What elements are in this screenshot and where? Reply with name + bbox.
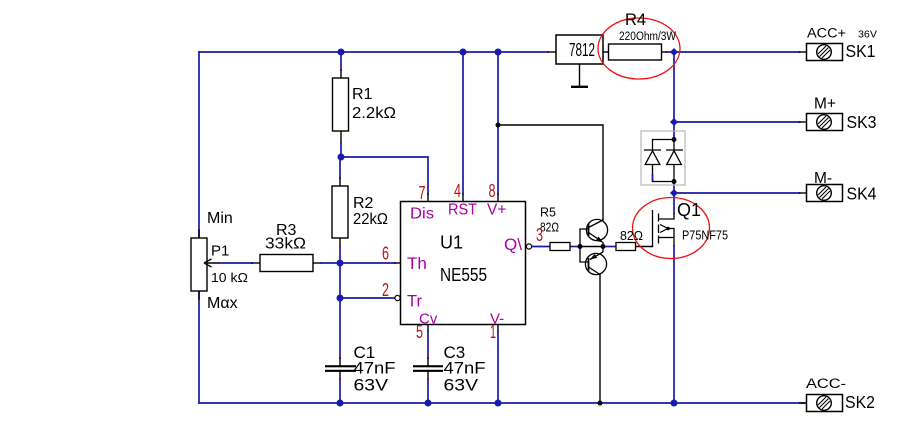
wire emitter node to R6 bbox=[603, 246, 616, 248]
wire R2 bottom lead bbox=[339, 238, 341, 246]
wire P1 bottom lead bbox=[198, 291, 200, 299]
svg-text:4: 4 bbox=[454, 181, 461, 201]
wire pin3 Q to R5 bbox=[532, 246, 550, 248]
wire node pin7 Dis bbox=[341, 157, 428, 194]
red ellipse around Q1 bbox=[633, 198, 710, 259]
resistor R2 bbox=[332, 186, 348, 238]
resistor R5 bbox=[550, 243, 570, 251]
node Tr bbox=[337, 295, 344, 302]
connector SK3 bbox=[807, 114, 843, 131]
node rail pin1 bbox=[495, 400, 502, 407]
wire node M- to SK4 bbox=[674, 192, 800, 194]
transistor Q2 top NPN bbox=[586, 219, 607, 246]
resistor R1 bbox=[333, 78, 349, 131]
wire 7812 input lead bbox=[548, 51, 556, 53]
svg-text:Q\: Q\ bbox=[504, 235, 522, 254]
wire bottom rail ACC- bbox=[199, 402, 806, 404]
node top R1 bbox=[338, 49, 345, 56]
resistor R4 bbox=[609, 44, 662, 60]
wire R5 to base node bbox=[570, 246, 580, 248]
svg-text:1: 1 bbox=[490, 322, 496, 342]
wire left rail bbox=[198, 52, 200, 403]
node rail Q1 source bbox=[671, 400, 678, 407]
svg-text:SK1: SK1 bbox=[846, 41, 876, 61]
wire node Th pin6 bbox=[340, 262, 395, 264]
svg-text:22kΩ: 22kΩ bbox=[353, 211, 388, 228]
connector SK4 bbox=[807, 185, 843, 202]
svg-text:3: 3 bbox=[536, 225, 543, 245]
wire top rail V+ bbox=[199, 51, 548, 53]
wire P1 wiper to R3 bbox=[204, 262, 219, 264]
wire pin8 V+ vertical bbox=[497, 52, 499, 194]
svg-text:Min: Min bbox=[207, 210, 233, 227]
diode node bottom bbox=[672, 179, 677, 184]
diode node top bbox=[672, 137, 677, 142]
node Th bbox=[337, 260, 344, 267]
node R1 R2 bbox=[338, 154, 345, 161]
svg-text:Mαx: Mαx bbox=[207, 295, 238, 312]
svg-text:10 kΩ: 10 kΩ bbox=[211, 270, 248, 285]
svg-text:47nF: 47nF bbox=[444, 360, 486, 378]
svg-text:R5: R5 bbox=[540, 206, 556, 220]
svg-text:ACC+: ACC+ bbox=[807, 26, 846, 41]
transistor Q3 bottom PNP bbox=[585, 247, 606, 275]
node rail C1 bbox=[337, 400, 344, 407]
red ellipse around R4 bbox=[598, 18, 680, 79]
mosfet body dot bbox=[666, 227, 670, 231]
svg-text:R2: R2 bbox=[353, 195, 374, 212]
svg-text:SK2: SK2 bbox=[845, 392, 875, 412]
wire main vertical to diodes bbox=[673, 52, 675, 140]
svg-text:6: 6 bbox=[382, 244, 389, 264]
wire pin1 V- to rail bbox=[497, 325, 499, 331]
diode module box bbox=[641, 131, 685, 185]
wire diode bottom to node M- bbox=[673, 182, 675, 214]
wire R6 to Q1 gate bbox=[636, 246, 653, 248]
wire C3 bottom lead bbox=[427, 372, 429, 379]
node top R4 out bbox=[670, 48, 678, 56]
pin8 feed node dot bbox=[496, 123, 501, 128]
wire R3 to Th node bbox=[313, 262, 321, 264]
wire 7812 output to R4 bbox=[603, 51, 609, 53]
node rail Q3 collector black bbox=[598, 401, 603, 406]
resistor R6 82ohm gate bbox=[616, 243, 636, 251]
wire Q1 source to rail bbox=[673, 246, 675, 403]
node M- bbox=[670, 189, 678, 197]
wire Tr down to C1 bbox=[339, 298, 341, 358]
svg-text:220Ohm/3W: 220Ohm/3W bbox=[619, 31, 676, 43]
svg-text:7: 7 bbox=[419, 183, 426, 203]
svg-text:5: 5 bbox=[416, 322, 423, 342]
wire C1 bottom lead bbox=[339, 372, 341, 379]
svg-text:ACC-: ACC- bbox=[806, 376, 846, 391]
svg-text:P1: P1 bbox=[211, 243, 229, 260]
svg-text:SK4: SK4 bbox=[847, 184, 877, 204]
svg-text:2: 2 bbox=[382, 280, 389, 300]
svg-text:7812: 7812 bbox=[569, 40, 595, 60]
diode D1 bbox=[644, 140, 674, 182]
wire R1 top lead bbox=[340, 52, 342, 70]
wire R1 bottom lead bbox=[340, 131, 342, 143]
svg-text:M-: M- bbox=[814, 170, 832, 187]
svg-text:SK3: SK3 bbox=[847, 112, 877, 132]
mosfet Q1 bbox=[653, 210, 675, 247]
wire node Tr pin2 bbox=[340, 297, 395, 299]
node M+ bbox=[670, 118, 678, 126]
junction dots blue bbox=[337, 48, 679, 407]
wire P1 top lead bbox=[198, 230, 200, 238]
connector SK2 bbox=[807, 395, 843, 412]
emitter node dot bbox=[601, 244, 606, 249]
wire pin5 Cv to C3 bbox=[427, 325, 429, 331]
svg-text:Q1: Q1 bbox=[677, 200, 701, 220]
base rail of Q2 Q3 bbox=[580, 229, 589, 262]
wire pin8 to transistor collector feed bbox=[498, 125, 603, 220]
svg-text:47nF: 47nF bbox=[354, 360, 396, 378]
svg-text:Th: Th bbox=[407, 254, 427, 273]
svg-text:NE555: NE555 bbox=[440, 264, 487, 285]
ground bbox=[571, 64, 588, 87]
wire base node to emitter node bbox=[580, 246, 603, 248]
svg-text:M+: M+ bbox=[814, 96, 836, 113]
base node dot bbox=[578, 244, 583, 249]
wire SK2 lead bbox=[800, 402, 807, 404]
resistor R3 bbox=[260, 255, 313, 272]
svg-text:R1: R1 bbox=[352, 86, 373, 103]
svg-text:63V: 63V bbox=[354, 377, 389, 395]
svg-text:63V: 63V bbox=[444, 377, 479, 395]
svg-text:P75NF75: P75NF75 bbox=[682, 229, 728, 243]
capacitor C1 bbox=[325, 365, 356, 372]
wire pin4 RST vertical bbox=[462, 52, 464, 194]
svg-text:33kΩ: 33kΩ bbox=[265, 236, 306, 253]
svg-text:R4: R4 bbox=[625, 11, 646, 29]
svg-text:U1: U1 bbox=[440, 233, 463, 253]
wire R4 to SK1 bbox=[662, 51, 667, 53]
svg-text:8: 8 bbox=[489, 181, 496, 201]
pin 3 bubble bbox=[526, 244, 531, 249]
svg-text:Tr: Tr bbox=[407, 293, 422, 311]
svg-text:RST: RST bbox=[448, 202, 477, 219]
svg-text:82Ω: 82Ω bbox=[620, 229, 643, 243]
diode D2 bbox=[666, 140, 683, 182]
wire Th to Tr vertical bbox=[339, 263, 341, 298]
svg-text:36V: 36V bbox=[858, 29, 877, 41]
wire node M+ to SK3 bbox=[674, 121, 800, 123]
connector SK1 bbox=[807, 44, 843, 61]
node rail C3 bbox=[425, 400, 432, 407]
wire Q2 collector to rail bbox=[599, 275, 601, 404]
wire stub in diode module bbox=[652, 174, 654, 181]
pin 2 bubble bbox=[395, 295, 400, 300]
regulator 7812 bbox=[556, 35, 603, 64]
potentiometer P1 bbox=[191, 238, 212, 291]
svg-text:Dis: Dis bbox=[410, 206, 434, 223]
svg-text:V+: V+ bbox=[487, 202, 506, 219]
node top pin8 bbox=[495, 49, 502, 56]
node top pin4 bbox=[460, 49, 467, 56]
svg-text:2.2kΩ: 2.2kΩ bbox=[352, 105, 396, 122]
capacitor C3 bbox=[413, 365, 443, 372]
IC U1 NE555 box bbox=[401, 202, 526, 325]
wire R2 top lead bbox=[339, 157, 341, 178]
